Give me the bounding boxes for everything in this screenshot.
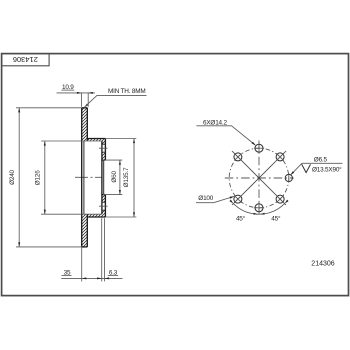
dim D240 line bbox=[18, 108, 20, 247]
dim 35/6.3 line bbox=[61, 277, 122, 279]
bolt hole edges in section bottom bbox=[102, 201, 106, 203]
dim D126 extension bottom bbox=[41, 213, 102, 215]
dim D126 extension top bbox=[41, 140, 102, 142]
bolt hole bottom (270 deg) bbox=[255, 204, 263, 212]
bolt hole edges in section top bbox=[102, 143, 106, 145]
dim D126 line bbox=[44, 141, 46, 214]
dim 35/6.3 extension lines bbox=[81, 247, 83, 282]
hat wall outer lower bbox=[104, 195, 106, 217]
dim 35 arrows bbox=[82, 277, 87, 279]
bore bottom edge bbox=[102, 194, 106, 196]
dim D135.7 extension bottom bbox=[105, 216, 136, 218]
front view horizontal centerline bbox=[225, 177, 294, 179]
drawing frame border bbox=[2, 54, 349, 296]
svg-text:214306: 214306 bbox=[311, 261, 334, 268]
angle dim arc arrows bbox=[229, 200, 233, 204]
leader D6.5 countersink bbox=[290, 163, 342, 175]
dim D60 line bbox=[119, 160, 121, 195]
leader MIN TH. 8MM line bbox=[84, 95, 146, 107]
dim D240 extension bottom bbox=[16, 246, 82, 248]
countersink symbol bbox=[302, 164, 311, 172]
hat flange hatch top bbox=[87, 139, 105, 142]
svg-text:Ø60: Ø60 bbox=[111, 171, 118, 183]
bolt hole lower-right (315 deg) bbox=[276, 195, 284, 203]
dim D126 arrows bbox=[44, 141, 46, 146]
svg-text:Ø100: Ø100 bbox=[198, 195, 213, 202]
front view vertical centerline bbox=[258, 141, 260, 216]
svg-text:Ø6.5: Ø6.5 bbox=[314, 157, 328, 164]
bolt circle D100 (dash-dot) bbox=[229, 148, 289, 208]
bolt hole centerline top bbox=[99, 147, 110, 149]
disc hatch bottom bbox=[82, 214, 88, 247]
hat flange bottom outer edge bbox=[87, 216, 105, 218]
hat wall inner bbox=[101, 141, 103, 214]
dim D60 extension top bbox=[103, 159, 122, 161]
svg-text:45°: 45° bbox=[271, 215, 281, 223]
hat wall outer upper bbox=[104, 139, 106, 161]
dim D60 extension bottom bbox=[103, 194, 122, 196]
dim D240 extension top bbox=[16, 107, 82, 109]
dim 10.9 arrows bbox=[77, 92, 82, 94]
bolt hole upper-right (45 deg) bbox=[276, 153, 284, 161]
angle dim arc 45/45 bbox=[233, 204, 284, 215]
hat flange top outer edge bbox=[87, 138, 105, 140]
svg-text:Ø135.7: Ø135.7 bbox=[123, 167, 130, 187]
bolt hole top (90 deg) bbox=[255, 144, 263, 152]
disc bottom edge bbox=[82, 246, 88, 248]
dim D135.7 extension top bbox=[105, 138, 136, 140]
dim 10.9 extension left bbox=[81, 93, 83, 107]
dim D135.7 line bbox=[133, 139, 135, 218]
title box top-left bbox=[2, 54, 50, 66]
hat wall hatch upper bbox=[102, 141, 106, 144]
svg-text:Ø126: Ø126 bbox=[35, 170, 42, 185]
svg-text:Ø13.5X90°: Ø13.5X90° bbox=[312, 165, 342, 173]
svg-text:214306: 214306 bbox=[13, 55, 38, 64]
bore top edge bbox=[102, 159, 106, 161]
bolt hole upper-left (135 deg) bbox=[234, 153, 242, 161]
hat wall hatch lower bbox=[102, 195, 106, 203]
svg-text:Ø240: Ø240 bbox=[9, 169, 16, 184]
svg-text:45°: 45° bbox=[236, 215, 246, 223]
svg-text:MIN TH. 8MM: MIN TH. 8MM bbox=[108, 88, 145, 95]
hat inner recess line bbox=[83, 141, 85, 214]
front view diagonal centerline 135 bbox=[232, 151, 286, 205]
disc inboard face upper bbox=[86, 108, 88, 141]
dim 6.3 arrow bbox=[105, 277, 110, 279]
bore chamfer line bbox=[103, 160, 105, 195]
disc inboard face lower bbox=[86, 214, 88, 247]
section centerline bbox=[75, 176, 102, 178]
dim 10.9 line bbox=[57, 92, 96, 94]
dim D135.7 arrows bbox=[133, 139, 135, 144]
bolt hole lower-left (225 deg) bbox=[234, 195, 242, 203]
front view diagonal centerline 45 bbox=[232, 151, 286, 205]
dim D60 arrows bbox=[119, 160, 121, 165]
leader MIN TH. 8MM arrow bbox=[84, 104, 88, 108]
disc outboard face (thick) bbox=[81, 108, 83, 247]
disc top edge bbox=[82, 107, 88, 109]
set screw hole at 0 deg bbox=[285, 174, 292, 181]
disc hatch top bbox=[82, 108, 88, 141]
bolt hole centerline bottom bbox=[99, 205, 110, 207]
dim D240 arrows bbox=[18, 108, 20, 113]
dim 10.9 extension right bbox=[87, 93, 89, 107]
hat flange hatch bottom bbox=[87, 214, 105, 217]
